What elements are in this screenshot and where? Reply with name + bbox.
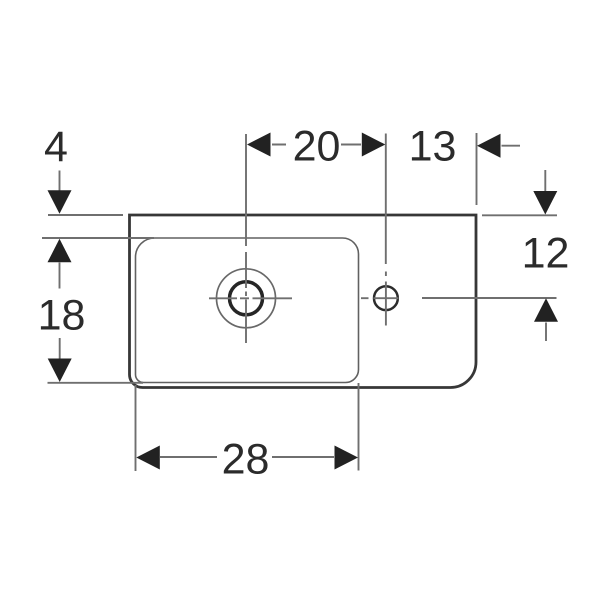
dimension 20 right arrow [362,133,386,157]
svg-text:13: 13 [409,123,457,171]
extension line dim20/13 shared [385,134,387,265]
extension line top-left (deck top edge level) [48,214,123,216]
dimension 12 top arrow stem [544,170,546,191]
tap hole inner circle [230,282,263,315]
extension line dim13 right [476,133,478,205]
basin bowl inner outline [136,238,359,383]
fixing hole circle [374,286,398,310]
extension line dim28 right [358,383,360,471]
dimension 18 upper stem [59,263,61,289]
tap hole centerline vertical [245,252,247,343]
dimension 12 down arrow [533,191,557,215]
dimension 12 bottom arrow stem [545,323,547,342]
svg-text:20: 20 [293,122,341,170]
dimension 18 down arrow [48,359,72,383]
dimension 18 lower stem [59,338,61,359]
dimension 28 left arrow [136,446,160,470]
svg-text:18: 18 [38,291,86,339]
extension line dim28 left [135,385,137,471]
svg-text:4: 4 [44,123,68,171]
dimension 18 up arrow [48,239,72,262]
extension line dim12 top [482,214,557,216]
tap hole centerline horizontal [209,297,292,299]
dimension 4 down arrow [48,190,72,214]
dimension 20 line [272,144,361,146]
dimension 12 up arrow [534,298,558,322]
dimension 28 right arrow [335,446,359,470]
dimension 20 left arrow [247,133,271,157]
extension line bowl bottom level (left) [48,382,144,384]
extension line dim20 left [245,134,247,246]
dimension 13 tail line [502,145,521,147]
washbasin deck outer outline [130,215,477,388]
dimension 28 line [160,456,334,458]
fixing hole centerline vertical [385,272,387,326]
svg-text:12: 12 [522,230,570,278]
svg-text:28: 28 [222,435,270,483]
fixing hole centerline horizontal [361,297,399,299]
dimension 13 arrow [477,134,501,158]
extension line bowl top level (left) [42,237,154,239]
dimension 4 arrow stem [59,171,61,192]
tap hole outer circle [217,269,276,328]
extension line dim12 bottom / fixing hole centerline [422,297,557,299]
